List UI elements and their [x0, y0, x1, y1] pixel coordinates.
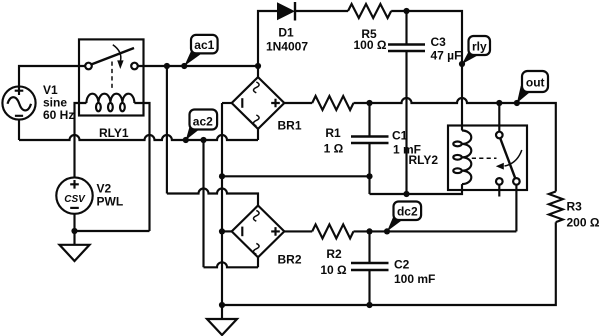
- wire dc2 row: R2 to RLY2 NO pin: [354, 230, 517, 232]
- RLY1 switch blade: [92, 48, 134, 64]
- wire R5 to top-right corner, down to RLY2 coil: [391, 11, 462, 131]
- wire BR1 plus to R1: [284, 102, 312, 104]
- svg-text:60 Hz: 60 Hz: [43, 108, 74, 122]
- wire RLY2 common pin stub up: [498, 103, 500, 132]
- node R5/C3 junction: [403, 8, 409, 14]
- source V1: [2, 83, 74, 122]
- relay RLY2: [409, 126, 528, 191]
- RLY2 dashed actuator line: [472, 157, 497, 159]
- bridge rectifier BR1: [232, 77, 302, 132]
- svg-text:PWL: PWL: [97, 194, 124, 208]
- wire BR1 top vertex up to D1 row: [258, 11, 277, 77]
- resistor R1: [312, 96, 353, 155]
- svg-text:ac2: ac2: [193, 114, 213, 128]
- RLY1 dashed actuator line: [111, 62, 113, 91]
- RLY1 coil: [86, 94, 134, 112]
- capacitor C1: [351, 103, 421, 194]
- svg-text:R1: R1: [325, 126, 341, 140]
- wire BR2 plus to R2: [284, 230, 312, 232]
- capacitor C2: [351, 231, 435, 305]
- svg-text:200 Ω: 200 Ω: [567, 215, 600, 229]
- node R2/C2 junction: [366, 228, 372, 234]
- wire RLY1 coil right lead down: [134, 103, 149, 231]
- wire ac2 bus: V1 bottom to BR1 AC2 vertex with hops: [19, 135, 258, 140]
- svg-text:100 mF: 100 mF: [394, 272, 435, 286]
- svg-text:out: out: [526, 76, 545, 90]
- wire RLY1 coil left lead to V2 plus: [75, 103, 87, 177]
- wire ac1 across to BR2 top with hops: [167, 189, 258, 206]
- wire ac1 vertical down: [166, 66, 168, 194]
- wire V1 top to RLY1 left pin: [19, 66, 85, 86]
- svg-text:RLY1: RLY1: [99, 126, 129, 140]
- resistor R2: [312, 224, 353, 276]
- port label rly: [459, 36, 490, 67]
- svg-text:1N4007: 1N4007: [266, 40, 308, 54]
- svg-text:R2: R2: [326, 247, 342, 261]
- node ac2 bus to BR2 tee: [200, 137, 206, 143]
- node BR2 minus junction: [219, 228, 225, 234]
- resistor R3: [549, 192, 600, 230]
- RLY2 switch blade: [500, 138, 515, 178]
- bridge rectifier BR2: [232, 206, 302, 267]
- node ac1 tee: [164, 63, 170, 69]
- RLY1 switch pins: [85, 63, 92, 70]
- wire D1 cathode to R5: [295, 10, 348, 12]
- capacitor C3: [388, 11, 461, 194]
- port label ac2: [183, 110, 217, 144]
- wire BR2 bottom across to ac2 vertical with hop: [204, 262, 259, 267]
- node C3 bottom junction: [403, 191, 409, 197]
- wire out row: R1 to right edge with hops over C3 and rly verticals: [354, 98, 556, 192]
- svg-text:10 Ω: 10 Ω: [320, 263, 347, 277]
- node C2 bottom on ground bus: [366, 302, 372, 308]
- svg-text:RLY2: RLY2: [409, 153, 439, 167]
- wire BR2 minus to ground vertical: [222, 230, 232, 232]
- RLY2 switch pins: [496, 132, 503, 139]
- svg-text:C2: C2: [394, 258, 410, 272]
- diode D1: [266, 2, 308, 54]
- svg-text:BR1: BR1: [278, 119, 302, 133]
- wire ground vertical (BR1-/BR2-/gnd): [221, 103, 223, 305]
- svg-text:dc2: dc2: [397, 205, 418, 219]
- wire V1 bottom down to ac2 bus: [18, 120, 20, 140]
- RLY2 coil: [453, 131, 471, 185]
- wire BR1 minus to ground vertical: [222, 102, 232, 104]
- node BR1 top junction: [255, 63, 261, 69]
- wire BR2 bottom stub: [257, 257, 259, 267]
- wire vertical ac2 to BR2 bottom: [202, 140, 204, 267]
- node V2 minus junction: [71, 228, 77, 234]
- svg-text:CSV: CSV: [64, 194, 86, 205]
- wire R3 bottom to ground bus: [222, 222, 556, 305]
- resistor R5: [348, 4, 391, 52]
- ground (left, under V2): [60, 231, 90, 261]
- svg-text:D1: D1: [278, 25, 294, 39]
- wire BR1 minus tee to C1: [222, 175, 370, 177]
- svg-text:100 Ω: 100 Ω: [354, 38, 387, 52]
- wire RLY1 right pin to BR1 top junction (ac1): [138, 65, 258, 67]
- svg-text:R3: R3: [567, 200, 583, 214]
- relay RLY1: [79, 39, 144, 140]
- svg-text:BR2: BR2: [278, 253, 302, 267]
- source V2: [56, 177, 123, 213]
- node gnd vertical tee: [219, 173, 225, 179]
- RLY1 arrow: [113, 45, 121, 61]
- wire V2 minus row: [75, 214, 150, 231]
- port label out: [514, 71, 548, 106]
- node ground bus left end: [219, 302, 225, 308]
- wire RLY2 NC pin stub (open): [498, 185, 500, 197]
- svg-text:47 µF: 47 µF: [431, 49, 462, 63]
- RLY2 arrow: [505, 150, 522, 166]
- svg-text:C1: C1: [392, 129, 408, 143]
- port label dc2: [384, 202, 421, 235]
- node C1 tee: [366, 173, 372, 179]
- wire BR1 AC2 stub: [257, 129, 259, 140]
- svg-text:1 Ω: 1 Ω: [324, 141, 344, 155]
- svg-text:ac1: ac1: [194, 38, 214, 52]
- svg-text:rly: rly: [472, 39, 487, 53]
- wire C1 bottom across to RLY2 coil bottom: [370, 184, 463, 194]
- wire RLY2 NO pin down to dc2 row: [515, 185, 517, 232]
- svg-text:C3: C3: [431, 35, 447, 49]
- node RLY2 common pin junction: [496, 100, 502, 106]
- node R1/C1 junction: [366, 100, 372, 106]
- ground (bottom center): [207, 305, 237, 335]
- port label ac1: [181, 35, 217, 69]
